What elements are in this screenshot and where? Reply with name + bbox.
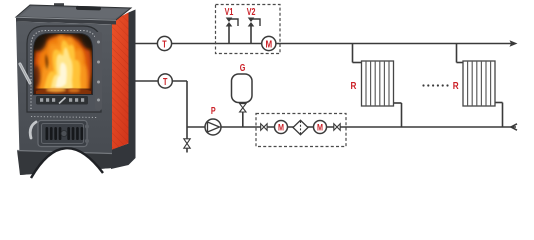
svg-text:M: M (265, 38, 272, 49)
svg-text:G: G (240, 62, 246, 73)
svg-text:R: R (351, 79, 357, 91)
svg-text:V2: V2 (247, 5, 256, 17)
svg-text:R: R (453, 79, 459, 91)
svg-text:P: P (211, 105, 216, 116)
svg-text:T: T (163, 76, 168, 87)
svg-text:T: T (162, 38, 167, 49)
svg-text:M: M (278, 123, 284, 133)
svg-text:M: M (317, 123, 323, 133)
svg-text:V1: V1 (225, 5, 234, 17)
